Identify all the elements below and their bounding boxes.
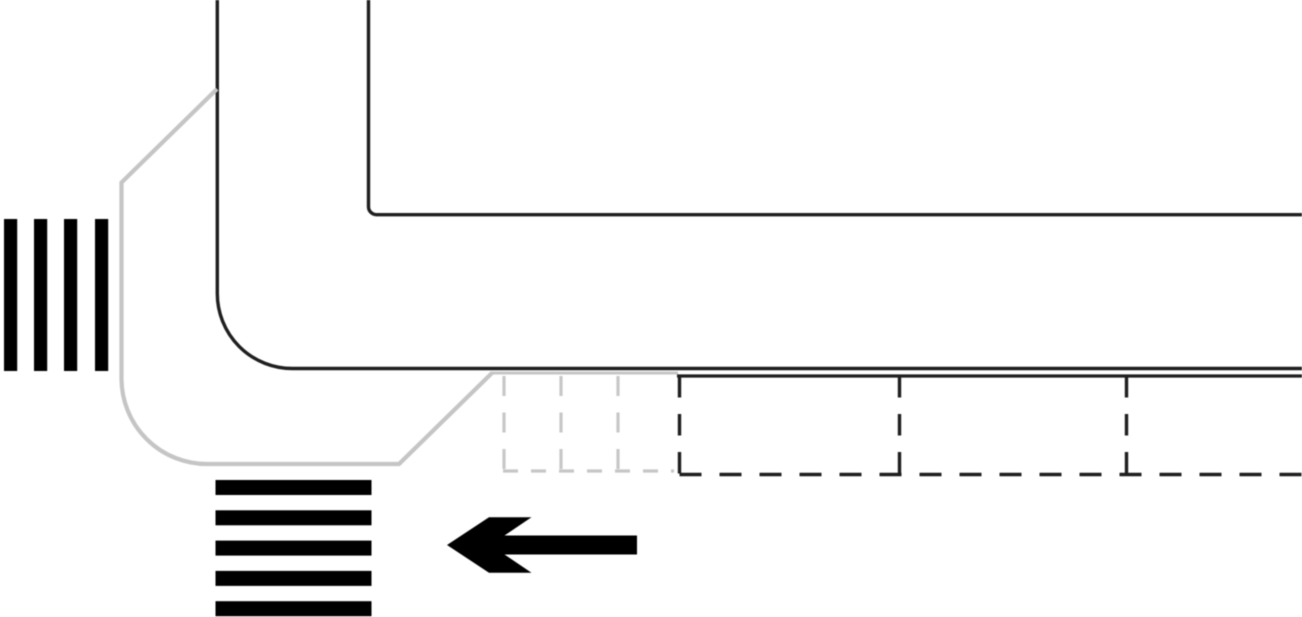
bottom crosswalk zebra bar 5: [216, 601, 372, 616]
gray dashed lane divider 1: [502, 376, 505, 471]
left crosswalk zebra bar 1: [4, 219, 17, 371]
black dashed lane divider 3: [1125, 376, 1128, 474]
black dashed lane bottom line: [680, 473, 1302, 476]
gray outer curb path (diagonal, vertical, corner curve, horizontal, diagonal taper): [122, 89, 493, 464]
bottom crosswalk zebra bar 2: [216, 510, 372, 525]
black solid lane edge line: [677, 374, 1302, 377]
gray dashed lane divider 2: [559, 376, 562, 471]
curb line: upper road edge L (vertical then horizontal to right): [369, 0, 1302, 215]
bottom crosswalk zebra bar 4: [216, 571, 372, 586]
gray dashed lane divider 3: [616, 376, 619, 471]
left crosswalk zebra bar 3: [64, 219, 77, 371]
bottom crosswalk zebra bar 1: [216, 480, 372, 495]
left crosswalk zebra bar 2: [34, 219, 47, 371]
black dashed lane divider 1: [678, 376, 681, 474]
travel direction arrow (pointing left): [447, 517, 637, 572]
bottom crosswalk zebra bar 3: [216, 541, 372, 556]
curb line: inner corner curb of intersection (vertical then curve to horizontal road edge): [217, 0, 1302, 369]
gray dashed lane bottom line: [503, 469, 674, 472]
gray solid lane edge line: [490, 372, 678, 375]
black dashed lane divider 2: [898, 376, 901, 474]
left crosswalk zebra bar 4: [95, 219, 108, 371]
